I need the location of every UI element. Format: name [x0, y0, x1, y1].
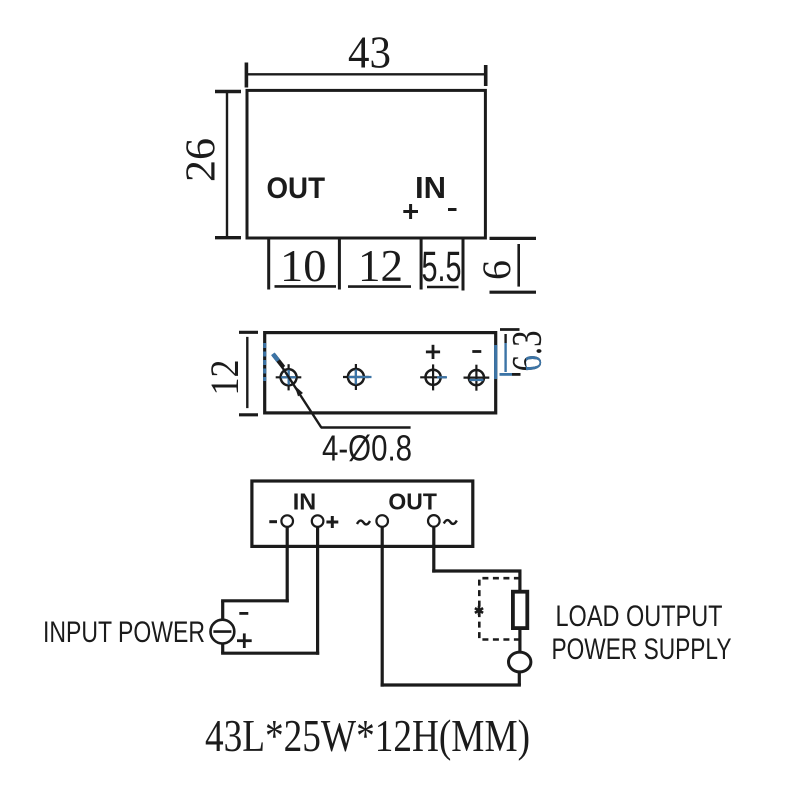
terminal 4 (OUT ~)	[428, 515, 440, 527]
svg-text:12: 12	[358, 241, 403, 291]
varistor star symbol	[475, 606, 483, 615]
svg-text:43: 43	[348, 27, 391, 78]
relay terminal box	[252, 481, 473, 546]
svg-text:26: 26	[179, 138, 225, 182]
label IN (top view)	[415, 170, 446, 205]
terminal minus sign	[269, 520, 277, 523]
terminal plus sign	[326, 516, 338, 528]
overall size text 43L*25W*12H(MM)	[205, 710, 530, 761]
AC source G1	[509, 652, 531, 672]
pin 4 lead	[462, 238, 465, 291]
wire terminal3 to load circuit bottom	[381, 527, 521, 687]
blue centre dash overlay on left edge	[263, 343, 266, 381]
svg-text:OUT: OUT	[388, 489, 437, 515]
load resistor	[513, 592, 527, 628]
dimension text 5.5	[422, 243, 462, 291]
dimension 6 (pin length) ticks	[490, 238, 537, 292]
dimension line 12 (pin pitch)	[348, 285, 411, 288]
blue overlay on right edge	[494, 345, 497, 379]
terminal 3 (OUT ~)	[376, 515, 388, 527]
label OUT (top view)	[267, 172, 326, 205]
source minus label	[239, 612, 248, 615]
label LOAD OUTPUT	[556, 600, 723, 633]
dimension line 43 (width)	[246, 63, 485, 88]
svg-text:OUT: OUT	[267, 172, 326, 205]
svg-text:4-Ø0.8: 4-Ø0.8	[322, 428, 412, 469]
dimension line 5.5 (pin pitch)	[427, 286, 459, 289]
svg-text:IN: IN	[293, 489, 316, 515]
source plus label	[237, 633, 252, 648]
svg-text:10: 10	[280, 241, 327, 291]
svg-text:12: 12	[202, 360, 247, 396]
polarity - (hole view)	[472, 350, 481, 353]
mounting hole H1	[276, 364, 302, 390]
wire terminal1 to input source (-)	[221, 527, 289, 620]
label OUT (wiring)	[388, 489, 437, 515]
svg-text:43L*25W*12H(MM): 43L*25W*12H(MM)	[205, 710, 530, 761]
polarity + (hole view)	[426, 345, 440, 359]
dimension text 26	[179, 138, 225, 182]
dimension text 6.3	[505, 331, 551, 372]
mounting hole H3	[420, 364, 447, 390]
dimension line 10 (pin pitch)	[275, 285, 337, 288]
polarity - (top view)	[448, 208, 457, 211]
svg-text:INPUT POWER: INPUT POWER	[43, 616, 205, 649]
base plate outline (bottom view)	[265, 333, 496, 413]
mounting hole H2	[343, 364, 372, 390]
pin 2 lead	[338, 238, 341, 290]
dimension line 12 (plate width)	[239, 332, 258, 415]
input power source B1	[211, 620, 235, 644]
dimension text 10	[280, 241, 327, 291]
varistor (dashed, optional)	[479, 578, 520, 639]
callout text 4-Ø0.8	[322, 428, 412, 469]
dimension line 26 (height)	[215, 91, 241, 238]
svg-text:IN: IN	[415, 170, 446, 205]
svg-text:5.5: 5.5	[422, 243, 462, 291]
dimension text 12	[358, 241, 403, 291]
svg-text:POWER SUPPLY: POWER SUPPLY	[552, 633, 732, 666]
label IN (wiring)	[293, 489, 316, 515]
dimension text 12 (plate)	[202, 360, 247, 396]
tilde right of terminal 4	[444, 520, 457, 524]
leader line for hole callout	[273, 354, 411, 428]
dimension text 6	[474, 260, 519, 280]
mounting hole H4	[464, 365, 490, 391]
polarity + (top view)	[403, 204, 418, 219]
wire terminal2 to input source (+)	[221, 527, 319, 655]
svg-text:6: 6	[474, 260, 519, 280]
terminal 2 (IN +)	[312, 515, 324, 527]
pin 1 lead	[267, 238, 270, 290]
terminal 1 (IN -)	[281, 515, 293, 527]
dimension text 43	[348, 27, 391, 78]
wire terminal4 to load top	[432, 527, 521, 592]
wire resistor to AC source	[518, 628, 521, 653]
label INPUT POWER	[43, 616, 205, 649]
dimension 6.3 (hole offset)	[500, 330, 521, 375]
svg-text:LOAD OUTPUT: LOAD OUTPUT	[556, 600, 723, 633]
label POWER SUPPLY	[552, 633, 732, 666]
module body outline (top view)	[247, 90, 485, 238]
tilde left of terminal 3	[357, 521, 370, 525]
pin 3 lead	[420, 238, 423, 290]
